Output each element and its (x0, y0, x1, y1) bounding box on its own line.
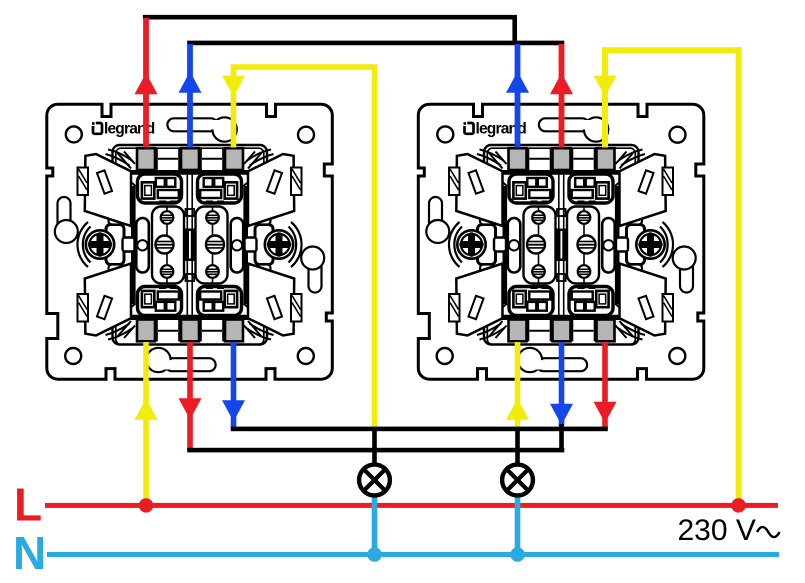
black line B (187, 448, 564, 453)
lamp E1 (359, 465, 390, 496)
svg-text:N: N (13, 527, 46, 578)
lamp2 drop wire (515, 429, 520, 464)
wire: black link top (S1 red to S2 blue) (143, 17, 515, 43)
cyan drop lamp2 to N (515, 495, 521, 555)
wire: yellow S2 top feed from L riser (594, 50, 739, 504)
wire: red S1 bottom to line B (179, 342, 202, 450)
switch S2 (right Legrand mechanism) (418, 104, 704, 379)
wire: red S2 top (550, 44, 573, 148)
wire: yellow S1 top crossover to lamp node (222, 67, 375, 428)
wire: red S2 bottom to line A (594, 342, 617, 429)
svg-text:L: L (14, 479, 42, 531)
wire: yellow feed L to S1 bottom (135, 342, 158, 506)
wire: yellow S2 bottom from line A (506, 342, 529, 429)
AC sine symbol (757, 527, 780, 537)
wire: blue S1 bottom to line A (222, 342, 245, 429)
wire: black link second (S1 blue to S2 red) (187, 41, 564, 46)
junction dot L-yellow right (731, 498, 745, 512)
junction dot N-lamp1 (367, 547, 381, 561)
L line (45, 503, 778, 508)
svg-text:230 V: 230 V (678, 514, 756, 547)
lamp1 drop wire (372, 429, 377, 464)
N line (47, 552, 779, 557)
wire: blue S1 top (179, 44, 202, 148)
wire: blue S2 top (506, 44, 529, 148)
wire: red S1 top (135, 18, 158, 148)
switch S1 (left Legrand mechanism) (47, 104, 333, 379)
junction dot L-yellow left (139, 498, 153, 512)
cyan drop lamp1 to N (372, 495, 378, 555)
lamp E2 (502, 465, 533, 496)
black line A (231, 427, 608, 432)
junction dot N-lamp2 (510, 547, 524, 561)
wire: blue S2 bottom (550, 342, 573, 450)
